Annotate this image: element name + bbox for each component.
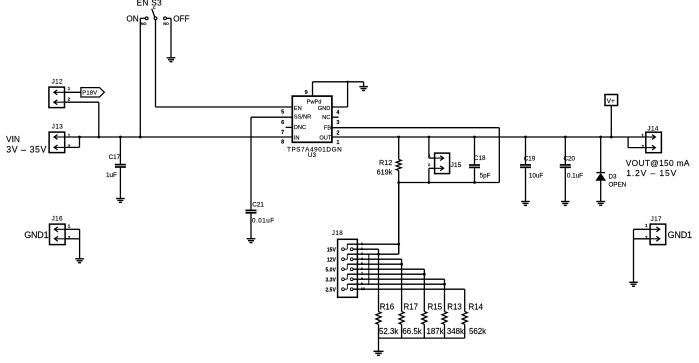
svg-text:NO: NO — [141, 22, 147, 26]
svg-text:348k: 348k — [447, 327, 464, 336]
svg-text:C: C — [153, 6, 156, 10]
svg-text:3: 3 — [336, 120, 339, 126]
svg-text:IN: IN — [294, 136, 300, 142]
svg-text:5.0V: 5.0V — [326, 267, 337, 273]
svg-text:NC: NC — [322, 115, 330, 121]
svg-text:C20: C20 — [564, 155, 576, 162]
svg-text:7: 7 — [281, 130, 284, 136]
svg-text:0.1uF: 0.1uF — [567, 172, 583, 179]
svg-text:V+: V+ — [607, 98, 615, 105]
svg-text:9: 9 — [305, 90, 308, 96]
svg-text:PwPd: PwPd — [307, 99, 322, 105]
svg-text:VOUT@150 mA: VOUT@150 mA — [626, 158, 690, 168]
svg-text:2: 2 — [336, 131, 339, 137]
svg-text:ON: ON — [126, 14, 138, 23]
svg-text:12V: 12V — [327, 257, 337, 263]
svg-text:R13: R13 — [447, 302, 462, 311]
svg-text:DNC: DNC — [294, 125, 306, 131]
svg-text:GND1: GND1 — [24, 230, 48, 240]
svg-text:FB: FB — [324, 126, 331, 132]
svg-text:2.5V: 2.5V — [326, 287, 337, 293]
svg-text:1: 1 — [336, 140, 339, 146]
svg-text:562k: 562k — [469, 327, 486, 336]
svg-text:C21: C21 — [252, 202, 264, 209]
svg-text:66.5k: 66.5k — [402, 327, 421, 336]
svg-text:1: 1 — [68, 223, 71, 228]
svg-text:1: 1 — [68, 86, 71, 91]
svg-text:SS/NR: SS/NR — [294, 115, 311, 121]
svg-text:J15: J15 — [451, 162, 462, 169]
svg-text:1: 1 — [645, 223, 648, 228]
svg-text:OUT: OUT — [319, 136, 332, 142]
svg-text:1.2V – 15V: 1.2V – 15V — [626, 168, 677, 178]
svg-text:P18V: P18V — [82, 91, 97, 97]
svg-text:OPEN: OPEN — [609, 181, 627, 188]
svg-text:R14: R14 — [469, 302, 484, 311]
svg-text:R12: R12 — [379, 158, 392, 167]
svg-text:J12: J12 — [52, 79, 63, 86]
svg-text:5pF: 5pF — [480, 172, 491, 179]
svg-text:VIN: VIN — [6, 134, 20, 144]
svg-text:R15: R15 — [428, 302, 443, 311]
svg-text:3.3V: 3.3V — [326, 277, 337, 283]
svg-text:J16: J16 — [52, 216, 63, 223]
svg-text:5: 5 — [281, 110, 284, 116]
svg-text:0.01uF: 0.01uF — [252, 218, 275, 225]
svg-text:EN: EN — [294, 106, 302, 112]
svg-text:EN S3: EN S3 — [137, 0, 163, 8]
svg-text:J17: J17 — [651, 216, 662, 223]
svg-text:3V – 35V: 3V – 35V — [6, 145, 47, 155]
svg-text:C18: C18 — [474, 155, 486, 162]
svg-text:6: 6 — [281, 120, 284, 126]
svg-text:J18: J18 — [332, 230, 343, 237]
svg-text:U3: U3 — [308, 152, 317, 159]
svg-text:OFF: OFF — [173, 14, 189, 23]
svg-text:C19: C19 — [524, 155, 536, 162]
svg-text:C17: C17 — [109, 154, 121, 161]
svg-text:10uF: 10uF — [529, 172, 544, 179]
svg-text:GND: GND — [318, 106, 331, 112]
svg-text:J13: J13 — [52, 124, 63, 131]
svg-text:R16: R16 — [380, 302, 395, 311]
svg-text:GND1: GND1 — [668, 230, 692, 240]
svg-text:52.3k: 52.3k — [379, 327, 398, 336]
svg-text:J14: J14 — [647, 126, 658, 133]
svg-text:1: 1 — [641, 133, 644, 138]
svg-text:NO: NO — [163, 22, 169, 26]
svg-text:R17: R17 — [404, 302, 418, 311]
svg-text:D3: D3 — [609, 174, 618, 181]
svg-text:15V: 15V — [327, 247, 337, 253]
svg-text:187k: 187k — [427, 327, 444, 336]
svg-text:2: 2 — [68, 96, 71, 101]
svg-text:619k: 619k — [377, 167, 393, 176]
svg-text:8: 8 — [281, 140, 284, 146]
svg-text:2: 2 — [641, 144, 644, 149]
svg-text:1uF: 1uF — [106, 172, 117, 179]
